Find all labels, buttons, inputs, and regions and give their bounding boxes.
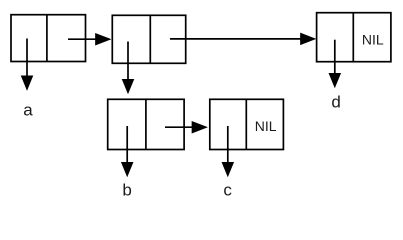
NIL value in cell 4: [362, 32, 384, 48]
cons cell 5 (car=c, cdr=NIL): [210, 99, 284, 149]
label b: [122, 180, 131, 199]
svg-text:NIL: NIL: [255, 118, 277, 134]
cdr pointer of cell 2 (long arrow right to cell 4): [170, 34, 314, 44]
cons cell 4 (car=d, cdr=NIL): [317, 13, 391, 62]
label d: [331, 93, 340, 112]
svg-text:c: c: [223, 180, 232, 199]
car pointer of cell 2 (down to cell 3): [123, 42, 133, 93]
svg-text:NIL: NIL: [362, 32, 384, 48]
label a: [23, 101, 33, 120]
svg-text:d: d: [331, 93, 340, 112]
car pointer of cell 1 (down to label a): [22, 39, 32, 89]
car pointer of cell 5 (down to label c): [223, 126, 233, 175]
cons cell 2 (car=sublist, cdr=cell 4): [112, 15, 185, 63]
cons cell 1 (list head, car=a): [11, 15, 86, 62]
car pointer of cell 4 (down to label d): [330, 40, 340, 86]
cons cell 3 (car=b): [108, 99, 184, 149]
svg-text:a: a: [23, 101, 33, 120]
car pointer of cell 3 (down to label b): [122, 126, 132, 175]
label c: [223, 180, 232, 199]
NIL value in cell 5: [255, 118, 277, 134]
svg-text:b: b: [122, 180, 131, 199]
cdr pointer of cell 3 (right to cell 5): [165, 122, 206, 132]
cdr pointer of cell 1 (right to cell 2): [68, 34, 109, 44]
